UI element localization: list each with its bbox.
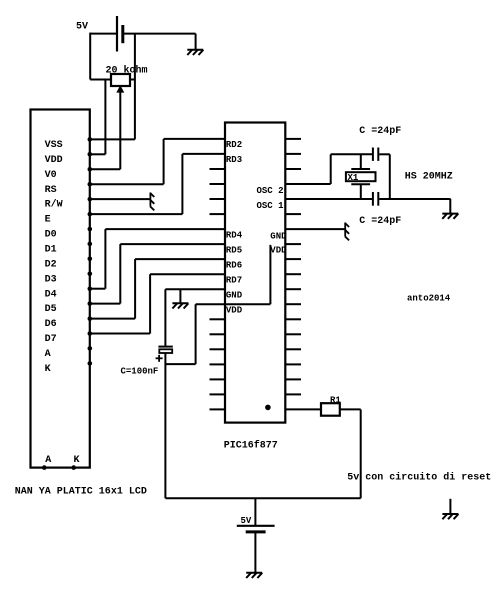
U1 right pin stub row 14 xyxy=(285,333,301,335)
U1 right pin stub row 1 xyxy=(285,138,301,140)
wire VDD elbow to C1 xyxy=(165,363,195,365)
U1 pin label OSC 2 xyxy=(256,186,283,196)
wire VDD pin xyxy=(196,303,271,305)
svg-text:RD7: RD7 xyxy=(226,275,242,285)
U1 left pin stub row 15 xyxy=(210,348,226,350)
wire OSC2 riser xyxy=(330,154,332,184)
ground G2 xyxy=(442,199,458,219)
LCD bottom pin A dot xyxy=(42,465,47,470)
wire C1 down to rail xyxy=(164,353,166,498)
LCD pin label E xyxy=(45,215,51,226)
resistor R1 body xyxy=(321,403,340,416)
label X1 xyxy=(348,173,359,183)
capacitor C1 top plate xyxy=(158,346,172,348)
battery B1 positive plate xyxy=(116,16,118,52)
U1 right pin stub row 10 xyxy=(285,273,301,275)
LCD pin label D6 xyxy=(45,319,57,330)
wire D4 to RD4 xyxy=(105,228,225,230)
crystal X1 bottom plate xyxy=(351,183,370,185)
label C=100nF xyxy=(121,366,159,376)
svg-text:D3: D3 xyxy=(45,274,57,285)
ground G3 on GND wire xyxy=(172,289,188,308)
U1 right pin stub row 9 xyxy=(285,258,301,260)
LCD pin label V0 xyxy=(45,170,57,181)
wire D5 segment xyxy=(90,303,121,305)
U1 left pin stub row 16 xyxy=(210,363,226,365)
LCD pin label D2 xyxy=(45,259,57,270)
crystal X1 bottom lead xyxy=(360,184,362,198)
U1 right pin stub row 17 xyxy=(285,378,301,380)
U1 pin label RD5 xyxy=(226,245,242,255)
LCD pin label RS xyxy=(45,185,57,196)
svg-text:5V: 5V xyxy=(241,516,252,526)
U1 pin label RD7 xyxy=(226,275,242,285)
LCD pin RS junction dot xyxy=(88,182,93,187)
svg-text:D7: D7 xyxy=(45,334,57,345)
U1 left pin stub row 19 xyxy=(210,408,226,410)
U1 right pin stub row 2 xyxy=(285,153,301,155)
label anto2014 xyxy=(407,294,451,304)
no-connect mark on R/W xyxy=(150,193,154,211)
crystal X1 top lead xyxy=(360,154,362,169)
U1 pin label GND (right) xyxy=(270,232,287,242)
label HS 20MHZ xyxy=(405,172,453,183)
U1 pin label RD6 xyxy=(226,260,242,270)
U1 internal dot (MCLR) xyxy=(265,405,271,411)
U1 left pin stub row 17 xyxy=(210,378,226,380)
label C =24pF (bottom) xyxy=(359,216,401,227)
LCD pin D3 junction dot xyxy=(88,272,93,277)
LCD pin A junction dot xyxy=(88,346,93,351)
crystal X1 body xyxy=(346,172,376,181)
LCD pin D5 junction dot xyxy=(88,301,93,306)
wire D6 segment xyxy=(90,318,135,320)
wire VDD internal riser xyxy=(269,245,271,304)
svg-text:V0: V0 xyxy=(45,170,57,181)
label 5v con circuito di reset xyxy=(347,471,491,483)
wire reset riser xyxy=(360,409,362,498)
LCD pin D0 junction dot xyxy=(88,227,93,232)
svg-text:OSC 2: OSC 2 xyxy=(256,186,283,196)
label C =24pF (top) xyxy=(359,126,401,137)
svg-text:X1: X1 xyxy=(348,173,359,183)
wire potentiometer right xyxy=(130,79,135,81)
LCD pin label VSS xyxy=(45,140,63,151)
svg-text:OSC 1: OSC 1 xyxy=(256,201,284,211)
wire D7 riser xyxy=(149,274,151,333)
wire OSC1 xyxy=(285,198,372,200)
wire VDD riser xyxy=(104,80,106,155)
LCD pin D6 junction dot xyxy=(88,316,93,321)
U1 right pin stub row 12 xyxy=(285,303,301,305)
wire MCLR to R1 xyxy=(285,408,321,410)
wire R/W xyxy=(90,198,151,200)
U1 pin label VDD (right) xyxy=(270,246,287,256)
svg-text:RD4: RD4 xyxy=(226,230,243,240)
U1 pin label VDD xyxy=(226,305,243,315)
LCD pin label D1 xyxy=(45,245,57,256)
svg-text:VDD: VDD xyxy=(270,246,287,256)
LCD pin label D3 xyxy=(45,274,57,285)
svg-text:PIC16f877: PIC16f877 xyxy=(224,440,278,452)
U1 right pin stub row 18 xyxy=(285,393,301,395)
U1 pin label GND xyxy=(226,290,243,300)
wire RS to RD2 xyxy=(164,138,225,140)
U1 right pin stub row 16 xyxy=(285,363,301,365)
ground G4 xyxy=(246,573,262,578)
label 5V (battery B2) xyxy=(241,516,252,526)
svg-text:HS 20MHZ: HS 20MHZ xyxy=(405,172,453,183)
svg-text:D2: D2 xyxy=(45,259,57,270)
svg-text:RD2: RD2 xyxy=(226,140,242,150)
svg-text:C=100nF: C=100nF xyxy=(121,366,159,376)
capacitor C2 plates xyxy=(373,148,378,161)
wire D7 segment xyxy=(90,333,150,335)
LCD pin label D7 xyxy=(45,334,57,345)
svg-text:5V: 5V xyxy=(76,22,88,33)
svg-text:D4: D4 xyxy=(45,289,57,300)
capacitor C1 body xyxy=(159,349,172,353)
svg-text:anto2014: anto2014 xyxy=(407,294,451,304)
wire GND to capacitor C1 xyxy=(164,289,166,346)
wire D6 to RD6 xyxy=(135,258,225,260)
wire to capacitor C2 xyxy=(331,153,372,155)
wire E to RD3 xyxy=(182,153,225,155)
PIC16F877 U1 outline xyxy=(225,123,285,423)
LCD pin label K (bottom) xyxy=(74,455,80,466)
wire D4 riser xyxy=(104,229,106,289)
svg-text:D5: D5 xyxy=(45,304,57,315)
wire VSS xyxy=(90,138,135,140)
LCD pin D2 junction dot xyxy=(88,257,93,262)
svg-text:GND: GND xyxy=(226,290,243,300)
U1 right pin stub row 11 xyxy=(285,288,301,290)
wire RS segment xyxy=(90,183,164,185)
LCD pin D7 junction dot xyxy=(88,331,93,336)
potentiometer R2 body xyxy=(111,74,130,86)
svg-text:C =24pF: C =24pF xyxy=(359,126,401,137)
wire V0 to wiper xyxy=(90,168,121,170)
svg-text:E: E xyxy=(45,215,51,226)
wire B1 right to ground xyxy=(123,33,196,35)
potentiometer R2 wiper arrow xyxy=(116,85,124,169)
U1 right pin stub row 6 xyxy=(285,213,301,215)
label 5V (battery B1) xyxy=(76,22,88,33)
U1 pin label OSC 1 xyxy=(256,201,284,211)
U1 left pin stub row 3 xyxy=(210,168,226,170)
LCD pin label D4 xyxy=(45,289,57,300)
svg-text:A: A xyxy=(45,349,51,360)
battery B1 negative plate xyxy=(121,25,124,43)
wire D6 riser xyxy=(134,259,136,319)
wire VDD riser down xyxy=(195,304,197,364)
wire D5 to RD5 xyxy=(120,243,225,245)
U1 left pin stub row 4 xyxy=(210,183,226,185)
LCD pin E junction dot xyxy=(88,212,93,217)
U1 right pin stub row 13 xyxy=(285,318,301,320)
LCD pin VSS junction dot xyxy=(88,137,93,142)
LCD module U2 outline xyxy=(31,110,90,468)
wire rail to battery B2 xyxy=(254,498,256,526)
no-connect mark on GND right xyxy=(345,223,349,241)
label R1 xyxy=(330,396,341,406)
battery B2 negative plate xyxy=(246,530,266,533)
wire down to ground G1 xyxy=(195,34,197,50)
capacitor C3 plates xyxy=(373,192,378,206)
svg-text:RD5: RD5 xyxy=(226,245,242,255)
LCD pin K junction dot xyxy=(88,361,93,366)
svg-text:RD3: RD3 xyxy=(226,155,242,165)
crystal X1 top plate xyxy=(351,168,370,170)
svg-text:GND: GND xyxy=(270,232,287,242)
wire RS riser xyxy=(163,139,165,184)
LCD bottom pin K dot xyxy=(71,465,76,470)
U1 left pin stub row 5 xyxy=(210,198,226,200)
U1 left pin stub row 14 xyxy=(210,333,226,335)
wire GND right xyxy=(285,228,345,230)
label PIC16f877 xyxy=(224,440,278,452)
LCD pin label VDD xyxy=(45,155,63,166)
svg-text:VDD: VDD xyxy=(226,305,243,315)
svg-text:RD6: RD6 xyxy=(226,260,242,270)
svg-text:K: K xyxy=(74,455,80,466)
U1 left pin stub row 18 xyxy=(210,393,226,395)
LCD pin VDD junction dot xyxy=(88,152,93,157)
ground G1 xyxy=(187,50,203,55)
LCD pin D1 junction dot xyxy=(88,242,93,247)
wire E riser xyxy=(181,154,183,214)
wire D5 riser xyxy=(119,244,121,304)
svg-text:RS: RS xyxy=(45,185,57,196)
wire bottom rail xyxy=(165,497,360,499)
LCD pin label D5 xyxy=(45,304,57,315)
wire battery left drop xyxy=(89,33,91,80)
LCD pin label A xyxy=(45,349,51,360)
battery B2 positive plate xyxy=(237,525,275,527)
LCD pin V0 junction dot xyxy=(88,167,93,172)
U1 right pin stub row 15 xyxy=(285,348,301,350)
wire C3 right to ground xyxy=(379,198,450,200)
svg-text:A: A xyxy=(45,455,51,466)
wire R1 right xyxy=(340,408,361,410)
ground G5 (floating) xyxy=(442,499,458,519)
wire D4 segment xyxy=(90,288,106,290)
U1 right pin stub row 8 xyxy=(285,243,301,245)
wire D7 to RD7 xyxy=(150,273,225,275)
svg-text:D6: D6 xyxy=(45,319,57,330)
U1 pin label RD2 xyxy=(226,140,242,150)
wire to potentiometer left xyxy=(90,79,111,81)
LCD pin label K xyxy=(45,364,51,375)
svg-text:5v con circuito di reset: 5v con circuito di reset xyxy=(347,471,491,483)
svg-text:NAN YA PLATIC 16x1 LCD: NAN YA PLATIC 16x1 LCD xyxy=(15,487,147,498)
LCD pin D4 junction dot xyxy=(88,286,93,291)
wire right riser xyxy=(389,154,391,198)
LCD pin label R/W xyxy=(45,199,63,211)
wire GND pin xyxy=(165,288,225,290)
label NAN YA PLATIC 16x1 LCD xyxy=(15,487,147,498)
svg-text:D1: D1 xyxy=(45,245,57,256)
LCD pin label A (bottom) xyxy=(45,455,51,466)
wire E segment xyxy=(90,213,183,215)
svg-text:VDD: VDD xyxy=(45,155,63,166)
LCD pin label D0 xyxy=(45,230,57,241)
wire OSC2 xyxy=(285,183,330,185)
svg-text:VSS: VSS xyxy=(45,140,63,151)
U1 pin label RD4 xyxy=(226,230,243,240)
wire B1 left to node xyxy=(90,33,117,35)
U1 left pin stub row 13 xyxy=(210,318,226,320)
wire B2 to ground G4 xyxy=(254,532,256,572)
wire VDD xyxy=(90,153,106,155)
capacitor C1 polarity + xyxy=(156,355,163,362)
LCD pin R/W junction dot xyxy=(88,197,93,202)
svg-text:K: K xyxy=(45,364,51,375)
U1 left pin stub row 6 xyxy=(210,213,226,215)
wire VSS riser to battery xyxy=(134,34,136,140)
svg-text:R/W: R/W xyxy=(45,199,63,211)
svg-text:C =24pF: C =24pF xyxy=(359,216,401,227)
wire C2 right xyxy=(379,153,390,155)
U1 pin label RD3 xyxy=(226,155,242,165)
U1 right pin stub row 3 xyxy=(285,168,301,170)
label 20 kohm (R2) xyxy=(106,65,148,77)
svg-text:D0: D0 xyxy=(45,230,57,241)
